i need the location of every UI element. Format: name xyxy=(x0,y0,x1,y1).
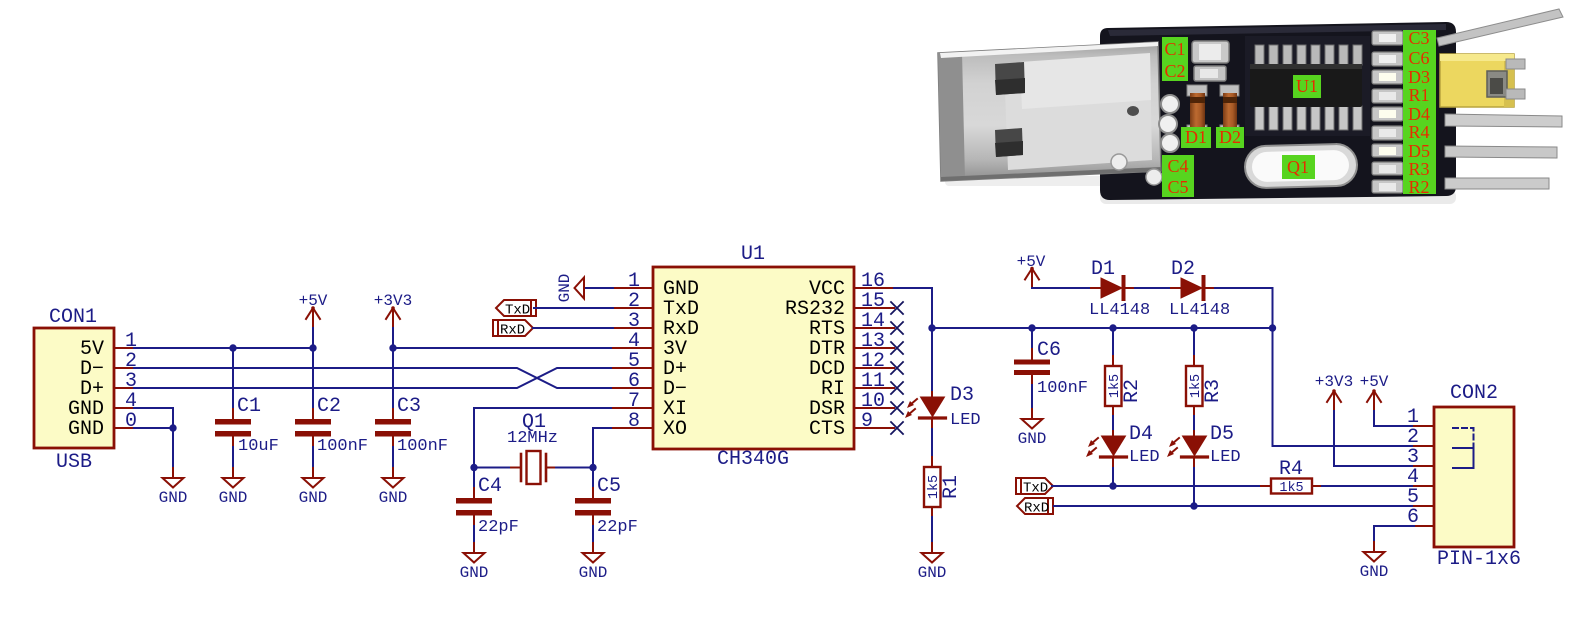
photo SMD column right: C3 C6 D3 R1 D4 R4 D5 R3 R2 xyxy=(1372,31,1403,193)
svg-text:100nF: 100nF xyxy=(397,437,448,456)
svg-text:R3: R3 xyxy=(1408,159,1429,179)
wire XI from U1 pin7 to crystal xyxy=(474,408,613,468)
junction R3 at VCC rail xyxy=(1190,324,1197,331)
wire RxD row to CON2 pin5 xyxy=(1054,505,1414,507)
supply +3V3 at CON2 xyxy=(1315,373,1414,466)
svg-text:GND: GND xyxy=(1018,430,1047,448)
ground symbol below C5 xyxy=(579,543,608,582)
svg-text:GND: GND xyxy=(1360,563,1389,581)
wire VCC rail row xyxy=(932,327,1273,329)
CON1 pin 3 (D+) xyxy=(80,370,137,401)
U1 pin 15 RS232 xyxy=(785,290,894,321)
wire CON2 pin6 to ground xyxy=(1374,526,1414,542)
svg-text:D2: D2 xyxy=(1219,127,1241,147)
svg-text:GND: GND xyxy=(159,489,188,507)
U1 pin 4 3V xyxy=(613,330,687,361)
CON2 pin 6 xyxy=(1407,506,1434,529)
junction crystal right xyxy=(589,464,596,471)
svg-text:R2: R2 xyxy=(1121,379,1144,403)
connector CON2 xyxy=(1434,382,1521,571)
capacitor C3 xyxy=(375,348,448,468)
junction VCC rail right end xyxy=(1269,324,1276,331)
ground symbol below C4 xyxy=(460,543,489,582)
svg-text:GND: GND xyxy=(579,564,608,582)
svg-text:R3: R3 xyxy=(1202,379,1225,403)
resistor R2 1k5 xyxy=(1105,328,1144,436)
junction D5 at RxD wire xyxy=(1190,502,1197,509)
U1 pin 9 CTS xyxy=(809,410,894,441)
svg-text:D1: D1 xyxy=(1091,258,1115,281)
svg-text:CON1: CON1 xyxy=(49,306,97,329)
photo label Q1 xyxy=(1282,155,1315,179)
photo SMD cap C2 xyxy=(1194,66,1226,81)
junction crystal left xyxy=(470,464,477,471)
svg-text:GND: GND xyxy=(219,489,248,507)
svg-text:LED: LED xyxy=(1210,448,1241,467)
U1 pin 8 XO xyxy=(613,410,687,441)
net flag TxD right xyxy=(1016,478,1053,497)
svg-text:R1: R1 xyxy=(1408,85,1429,105)
diode D1 LL4148 xyxy=(1089,258,1150,320)
U1 pin 13 DTR xyxy=(809,330,894,361)
svg-text:C1: C1 xyxy=(237,395,261,418)
svg-text:C4: C4 xyxy=(478,475,502,498)
svg-text:GND: GND xyxy=(918,564,947,582)
net flag TxD at U1 xyxy=(496,300,613,319)
capacitor C5 xyxy=(575,468,638,544)
svg-text:0: 0 xyxy=(125,410,137,433)
svg-text:R4: R4 xyxy=(1408,122,1429,142)
svg-text:D4: D4 xyxy=(1129,423,1153,446)
svg-text:CON2: CON2 xyxy=(1450,382,1498,405)
svg-text:C2: C2 xyxy=(1164,61,1185,81)
junction C3 at 3V3 rail xyxy=(389,344,396,351)
svg-text:U1: U1 xyxy=(1296,76,1318,96)
photo IC U1 body xyxy=(1250,64,1362,107)
svg-text:U1: U1 xyxy=(741,243,765,266)
svg-text:R1: R1 xyxy=(940,475,963,499)
crystal Q1 xyxy=(474,411,593,484)
wire TxD row to R4 xyxy=(1052,485,1261,487)
CON2 pin 3 xyxy=(1407,446,1434,469)
svg-text:9: 9 xyxy=(861,410,873,433)
supply +5V at CON2 xyxy=(1360,373,1414,426)
svg-text:12MHz: 12MHz xyxy=(507,429,558,448)
U1 pin 7 XI xyxy=(613,390,687,421)
ground symbol below R1 xyxy=(918,543,947,582)
CON1 pin 1 (5V) xyxy=(80,330,137,361)
connector CON1 xyxy=(34,306,114,474)
photo crystal Q1 xyxy=(1244,144,1357,189)
CON2 pin 1 xyxy=(1407,406,1434,429)
svg-text:1k5: 1k5 xyxy=(1279,481,1303,496)
photo through-hole pads xyxy=(1161,95,1179,113)
photo label D1 xyxy=(1181,127,1211,148)
svg-text:C3: C3 xyxy=(1408,28,1429,48)
CON1 pin 2 (D-) xyxy=(80,350,137,381)
svg-text:LL4148: LL4148 xyxy=(1169,301,1230,320)
U1 pin 1 GND xyxy=(613,270,699,301)
svg-text:GND: GND xyxy=(556,274,574,303)
svg-text:C5: C5 xyxy=(597,475,621,498)
CON2 pin 4 xyxy=(1407,466,1434,489)
photo header pins right xyxy=(1445,114,1562,127)
svg-text:D5: D5 xyxy=(1210,423,1234,446)
photo label C1 C2 xyxy=(1162,37,1188,81)
ground symbol below CON1 xyxy=(159,468,188,507)
photo of USB-TTL module xyxy=(938,9,1563,204)
resistor R3 1k5 xyxy=(1186,328,1225,436)
wire VCC from pin16 xyxy=(894,288,932,392)
CON1 pin 0 (GND) xyxy=(68,410,137,441)
wire CON1 pin4 to ground node xyxy=(134,408,173,428)
capacitor C4 xyxy=(456,468,519,544)
photo shell hole 2 xyxy=(995,128,1023,157)
wire D- net with crossover xyxy=(134,368,613,388)
ground symbol below C2 xyxy=(299,468,328,507)
photo yellow jumper block xyxy=(1440,54,1514,107)
junction VCC rail at D3 column xyxy=(928,324,935,331)
photo IC U1 bottom pins xyxy=(1255,106,1362,130)
svg-text:D2: D2 xyxy=(1171,258,1195,281)
svg-text:C4: C4 xyxy=(1167,156,1188,176)
ground symbol below C6 xyxy=(1018,409,1047,448)
CON2 pin 5 xyxy=(1407,486,1434,509)
svg-text:CH340G: CH340G xyxy=(717,448,789,471)
svg-text:GND: GND xyxy=(379,489,408,507)
capacitor C2 xyxy=(295,348,368,468)
svg-text:GND: GND xyxy=(299,489,328,507)
svg-text:Q1: Q1 xyxy=(1287,157,1309,177)
wire ground node down xyxy=(172,428,174,468)
photo PCB board xyxy=(1100,22,1456,200)
svg-text:C3: C3 xyxy=(397,395,421,418)
svg-text:LED: LED xyxy=(950,411,981,430)
IC U1 CH340G xyxy=(653,243,854,471)
resistor R4 1k5 xyxy=(1261,458,1322,496)
svg-text:XO: XO xyxy=(663,418,687,441)
svg-text:LED: LED xyxy=(1129,448,1160,467)
photo shell small dot xyxy=(1127,106,1139,116)
svg-text:R4: R4 xyxy=(1279,458,1303,481)
U1 pin 6 D- xyxy=(613,370,687,401)
photo label column right xyxy=(1403,30,1436,194)
svg-text:LL4148: LL4148 xyxy=(1089,301,1150,320)
svg-text:GND: GND xyxy=(68,418,104,441)
U1 pin 5 D+ xyxy=(613,350,687,381)
svg-text:D3: D3 xyxy=(1408,67,1430,87)
svg-text:+5V: +5V xyxy=(1360,373,1389,391)
svg-text:22pF: 22pF xyxy=(478,518,519,537)
wire R4 to CON2 pin4 xyxy=(1322,485,1414,487)
photo label C4 C5 xyxy=(1162,155,1194,197)
wire D1 to D2 xyxy=(1135,287,1171,289)
LED D4 xyxy=(1086,423,1160,468)
svg-text:GND: GND xyxy=(460,564,489,582)
junction C1 at 5V rail xyxy=(229,344,236,351)
svg-text:D4: D4 xyxy=(1408,104,1430,124)
supply +5V left xyxy=(299,292,328,348)
net flag RxD right xyxy=(1017,498,1053,517)
photo MELF diode D2 xyxy=(1220,85,1239,96)
U1 pin 11 RI xyxy=(821,370,894,401)
photo shadow xyxy=(1100,190,1456,204)
net flag RxD at U1 xyxy=(493,320,613,339)
wire CON1 pin0 to ground node xyxy=(134,427,173,429)
svg-text:100nF: 100nF xyxy=(317,437,368,456)
junction D4 at TxD wire xyxy=(1109,482,1116,489)
svg-text:R2: R2 xyxy=(1408,177,1429,197)
ground symbol at CON2 xyxy=(1360,542,1389,581)
photo SMD cap C1 xyxy=(1192,41,1229,63)
svg-text:D3: D3 xyxy=(950,384,974,407)
svg-text:8: 8 xyxy=(628,410,640,433)
U1 pin 10 DSR xyxy=(809,390,894,421)
photo shell hole 1 xyxy=(995,62,1025,95)
svg-text:10uF: 10uF xyxy=(238,437,279,456)
photo header pin top slanted xyxy=(1437,9,1563,46)
svg-text:TxD: TxD xyxy=(1023,481,1048,497)
no-connect X marks pins 15..9 xyxy=(891,302,903,434)
photo IC U1 top pins xyxy=(1255,45,1362,65)
svg-text:C1: C1 xyxy=(1164,39,1185,59)
wire D3 to R1 xyxy=(931,429,933,467)
wire D5 to RxD row xyxy=(1193,468,1195,506)
resistor R1 1k5 xyxy=(924,467,963,507)
junction R2 at VCC rail xyxy=(1109,324,1116,331)
wire D2 cathode down to rail and CON2 pin2 xyxy=(1215,288,1414,446)
svg-text:CTS: CTS xyxy=(809,418,845,441)
LED D3 xyxy=(905,384,981,430)
LED D5 xyxy=(1167,423,1241,468)
photo label D2 xyxy=(1216,127,1244,148)
ground symbol below C1 xyxy=(219,468,248,507)
U1 pin 2 TxD xyxy=(613,290,699,321)
svg-text:PIN-1x6: PIN-1x6 xyxy=(1437,548,1521,571)
svg-text:C6: C6 xyxy=(1408,48,1429,68)
wire 5V net CON1 to +5V xyxy=(134,347,313,349)
svg-text:RxD: RxD xyxy=(500,323,525,339)
supply +3V3 left xyxy=(313,292,412,348)
photo USB metal shell xyxy=(938,42,1161,181)
wire XO from U1 pin8 to crystal xyxy=(593,428,613,468)
svg-text:D5: D5 xyxy=(1408,141,1430,161)
svg-text:USB: USB xyxy=(56,451,92,474)
junction CON1 ground node xyxy=(169,424,176,431)
svg-text:TxD: TxD xyxy=(505,303,530,319)
capacitor C6 xyxy=(1014,328,1088,409)
wire R1 to ground xyxy=(931,507,933,517)
junction C2 at 5V rail xyxy=(309,344,316,351)
U1 pin 16 VCC xyxy=(809,270,894,301)
capacitor C1 xyxy=(215,348,279,468)
diode D2 LL4148 xyxy=(1169,258,1230,320)
svg-text:C5: C5 xyxy=(1167,177,1188,197)
svg-text:RxD: RxD xyxy=(1024,501,1049,517)
svg-text:C2: C2 xyxy=(317,395,341,418)
wire +5V to D1 xyxy=(1032,287,1091,289)
wire 3V3 rail to U1 pin4 xyxy=(393,347,613,349)
supply +5V top right xyxy=(1017,253,1046,288)
photo label U1 xyxy=(1293,75,1321,98)
svg-text:22pF: 22pF xyxy=(597,518,638,537)
wire D4 to TxD row xyxy=(1112,468,1114,486)
U1 pin 12 DCD xyxy=(809,350,894,381)
ground symbol below C3 xyxy=(379,468,408,507)
photo MELF diode D1 xyxy=(1187,85,1207,96)
svg-text:100nF: 100nF xyxy=(1037,379,1088,398)
ground symbol at U1 pin1 (rotated) xyxy=(556,274,613,303)
junction C6 at VCC rail xyxy=(1028,324,1035,331)
U1 pin 3 RxD xyxy=(613,310,699,341)
svg-text:C6: C6 xyxy=(1037,339,1061,362)
wire D+ net with crossover xyxy=(134,368,613,388)
CON2 pin 2 xyxy=(1407,426,1434,449)
svg-text:D1: D1 xyxy=(1185,127,1207,147)
U1 pin 14 RTS xyxy=(809,310,894,341)
CON1 pin 4 (GND) xyxy=(68,390,137,421)
svg-text:+3V3: +3V3 xyxy=(1315,373,1353,391)
